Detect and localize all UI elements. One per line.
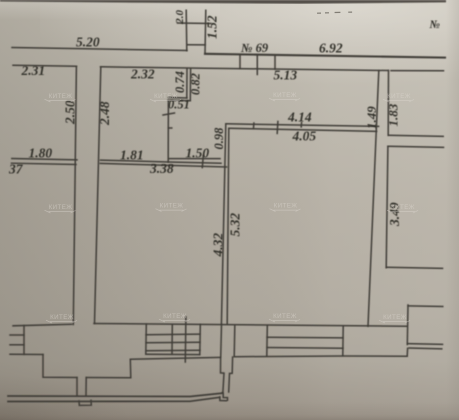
svg-text:КИТЕЖ: КИТЕЖ xyxy=(49,93,73,100)
svg-text:№: № xyxy=(429,19,441,31)
svg-text:0.82: 0.82 xyxy=(189,73,203,95)
ladder vertical left xyxy=(23,326,25,355)
stair block bottom xyxy=(146,353,200,355)
wall inner top long xyxy=(101,67,389,71)
svg-text:2.0: 2.0 xyxy=(174,10,186,25)
wall right lower step xyxy=(406,348,408,356)
bottom double line lower hook xyxy=(220,397,227,401)
svg-text:4.14: 4.14 xyxy=(287,110,312,125)
niche left vertical down xyxy=(167,101,169,163)
wall 3.38 upper xyxy=(101,160,222,163)
wall 1.80 lower xyxy=(12,163,77,164)
svg-text:КИТЕЖ: КИТЕЖ xyxy=(49,204,73,211)
svg-text:1.50: 1.50 xyxy=(186,146,210,161)
wall divider b + tick 5.13 xyxy=(256,55,258,75)
wall top protrusion left xyxy=(185,10,188,51)
porch bottom long line xyxy=(234,355,407,358)
stair block right edge xyxy=(199,324,202,354)
passage right vertical from wall xyxy=(233,326,236,357)
tick c room top xyxy=(300,122,302,127)
svg-text:КИТЕЖ: КИТЕЖ xyxy=(387,93,411,100)
svg-text:37: 37 xyxy=(8,162,24,177)
wall right cap b xyxy=(388,146,444,147)
svg-text:1.80: 1.80 xyxy=(29,146,53,161)
wall right lower vertical xyxy=(406,305,409,345)
bottom double line upper hook xyxy=(222,393,228,401)
stair block inner vertical xyxy=(171,324,173,354)
bottom double line lower xyxy=(8,397,220,401)
right stair block right edge xyxy=(342,326,344,356)
bottom dark edge xyxy=(0,402,459,420)
wall right corridor vertical lower xyxy=(386,146,388,268)
wall 1.80 upper xyxy=(12,159,77,160)
svg-text:КИТЕЖ: КИТЕЖ xyxy=(50,314,74,321)
svg-text:КИТЕЖ: КИТЕЖ xyxy=(273,313,297,320)
ladder rung 1 xyxy=(10,334,24,336)
svg-text:5.20: 5.20 xyxy=(76,35,100,50)
svg-text:5.32: 5.32 xyxy=(228,213,243,237)
divider continuation to landing xyxy=(220,325,223,358)
wall divider right line xyxy=(227,128,229,324)
svg-text:3.38: 3.38 xyxy=(149,161,174,176)
ladder rung 3 xyxy=(10,353,43,355)
svg-text:2.50: 2.50 xyxy=(63,100,78,125)
svg-text:4.05: 4.05 xyxy=(292,129,317,144)
right stair rung 2 xyxy=(267,347,343,350)
ladder rung 2 xyxy=(10,344,24,346)
svg-text:4.32: 4.32 xyxy=(211,233,226,258)
stair rung 3 xyxy=(146,349,200,352)
stair block left edge xyxy=(145,324,148,354)
bottom double line upper xyxy=(8,393,222,396)
tick a room top xyxy=(253,123,255,128)
wall divider a xyxy=(239,55,241,69)
top-left light corner xyxy=(0,0,1,1)
niche small mark xyxy=(168,127,172,129)
wall right cap a xyxy=(388,135,443,136)
svg-text:№ 69: № 69 xyxy=(241,41,269,55)
svg-text:1.81: 1.81 xyxy=(120,148,144,163)
wall inner top right cap xyxy=(391,70,444,72)
niche vertical a xyxy=(186,69,188,99)
wall 3.38 lower xyxy=(100,163,226,167)
svg-text:1.83: 1.83 xyxy=(386,103,401,126)
wall inner top left (2.31 room) xyxy=(13,65,77,66)
svg-text:КИТЕЖ: КИТЕЖ xyxy=(160,203,184,210)
wall divider c xyxy=(274,55,276,69)
svg-text:КИТЕЖ: КИТЕЖ xyxy=(383,314,407,321)
wall room top upper (4.14) xyxy=(226,124,379,127)
svg-text:КИТЕЖ: КИТЕЖ xyxy=(154,93,178,100)
wall center room left vertical xyxy=(95,67,101,324)
svg-text:0.98: 0.98 xyxy=(212,127,226,150)
svg-text:5.13: 5.13 xyxy=(274,68,298,83)
threshold bump xyxy=(79,400,91,405)
svg-text:1.49: 1.49 xyxy=(364,106,379,129)
tick 2.0 xyxy=(178,22,212,25)
wall top main xyxy=(205,54,445,58)
wall top protrusion right xyxy=(204,10,207,53)
wall room top lower (4.05) xyxy=(229,128,377,131)
wall left room vertical xyxy=(73,66,76,324)
tick b room top xyxy=(276,121,279,133)
svg-text:КИТЕЖ: КИТЕЖ xyxy=(391,204,415,211)
wall protrusion bottom xyxy=(187,44,205,46)
doorway vertical a xyxy=(76,378,78,396)
wall bottom main xyxy=(94,324,407,327)
dimension labels xyxy=(8,10,441,258)
niche vertical b xyxy=(189,69,191,101)
dim line 1.50 xyxy=(169,158,220,160)
svg-text:КИТЕЖ: КИТЕЖ xyxy=(274,203,298,210)
svg-text:1.52: 1.52 xyxy=(205,15,220,39)
stair rung 1 xyxy=(146,333,200,336)
wall right lower cap a xyxy=(408,305,443,308)
top dark edge xyxy=(0,0,446,4)
svg-text:0.74: 0.74 xyxy=(173,71,187,93)
tick 1.50 xyxy=(202,156,203,168)
step down left porch xyxy=(43,355,77,378)
svg-text:КИТЕЖ: КИТЕЖ xyxy=(273,92,297,99)
wall right lower cap c xyxy=(409,347,442,350)
watermarks xyxy=(45,92,419,323)
svg-text:2.32: 2.32 xyxy=(130,67,155,82)
wall bottom main left piece xyxy=(13,324,72,326)
right stair rung 1 xyxy=(267,336,343,339)
wall big room right vertical xyxy=(368,71,379,327)
passage left side xyxy=(221,357,225,392)
svg-text:КИТЕЖ: КИТЕЖ xyxy=(163,313,187,320)
wire dimension line 5.20 xyxy=(12,48,187,51)
niche bottom a xyxy=(168,97,187,100)
wall right corridor vertical upper xyxy=(387,70,389,135)
right stair block left edge xyxy=(266,326,269,356)
wall right cap c xyxy=(386,267,442,268)
passage right side xyxy=(229,357,233,392)
niche bottom b xyxy=(168,99,190,101)
svg-text:6.92: 6.92 xyxy=(319,41,343,56)
porch line to landing xyxy=(86,357,220,377)
faint pencil dashes top xyxy=(317,12,352,13)
svg-text:2.48: 2.48 xyxy=(97,101,112,126)
stair rung 2 xyxy=(146,341,200,344)
doorway vertical b xyxy=(85,378,87,396)
tick 0.51 xyxy=(163,113,175,115)
svg-text:2.31: 2.31 xyxy=(21,63,46,78)
stair center long line xyxy=(184,317,187,362)
wall divider left line xyxy=(221,124,225,324)
wall right lower cap b xyxy=(407,343,442,346)
